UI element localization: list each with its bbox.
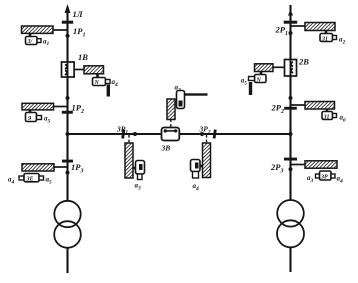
svg-text:ЗР: ЗР — [320, 175, 328, 181]
svg-text:2В: 2В — [298, 57, 309, 67]
svg-text:1В: 1В — [78, 52, 88, 62]
svg-text:N: N — [94, 80, 100, 86]
svg-text:1Л: 1Л — [73, 9, 84, 19]
svg-text:З1: З1 — [323, 114, 330, 120]
svg-text:N: N — [256, 77, 262, 83]
svg-text:3В: 3В — [161, 144, 171, 153]
svg-text:ЗЕ: ЗЕ — [26, 176, 34, 182]
svg-text:З1: З1 — [321, 36, 328, 42]
